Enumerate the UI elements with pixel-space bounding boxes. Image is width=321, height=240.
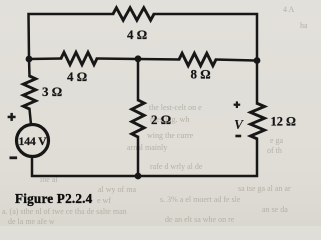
svg-text:sa tse ga al an ar: sa tse ga al an ar [238, 184, 291, 193]
svg-text:s. 3% a el moert ad fe sle: s. 3% a el moert ad fe sle [160, 195, 241, 204]
svg-text:12 Ω: 12 Ω [271, 115, 296, 129]
svg-text:8 Ω: 8 Ω [191, 67, 211, 82]
svg-text:144 V: 144 V [19, 134, 48, 148]
svg-text:wing the curre: wing the curre [147, 131, 194, 140]
svg-text:the lest-celt on e: the lest-celt on e [149, 103, 202, 112]
svg-text:de la me afe w: de la me afe w [8, 217, 55, 226]
svg-text:V: V [234, 117, 244, 132]
svg-text:a. (a) sthe nl of twe ce tha d: a. (a) sthe nl of twe ce tha de salte ma… [2, 207, 127, 216]
svg-text:ha: ha [300, 21, 308, 30]
svg-text:2 Ω: 2 Ω [151, 112, 171, 127]
svg-text:4 Ω: 4 Ω [67, 69, 87, 84]
svg-text:e ga: e ga [270, 136, 284, 145]
svg-text:4 A: 4 A [283, 5, 295, 14]
svg-text:an se da: an se da [262, 205, 288, 214]
svg-text:3 Ω: 3 Ω [42, 84, 62, 99]
svg-text:of th: of th [267, 146, 282, 155]
svg-text:e wf: e wf [97, 196, 111, 205]
svg-text:de an elt sa whe on re: de an elt sa whe on re [165, 215, 235, 224]
svg-text:rafe d wrly al de: rafe d wrly al de [150, 162, 203, 171]
svg-text:Figure P2.2.4: Figure P2.2.4 [15, 191, 93, 206]
svg-text:4 Ω: 4 Ω [127, 27, 147, 42]
svg-text:arnal mainly: arnal mainly [127, 143, 167, 152]
svg-text:al wy of ma: al wy of ma [98, 185, 136, 194]
